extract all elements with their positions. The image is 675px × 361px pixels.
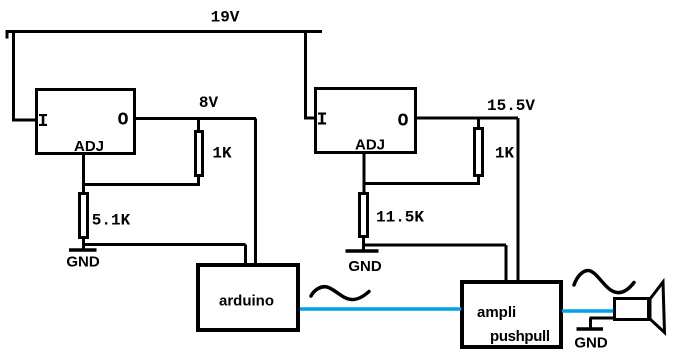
amplifier box	[462, 282, 561, 347]
wire 19V supply rail	[6, 30, 322, 33]
svg-text:GND: GND	[66, 254, 100, 271]
wire U2 output 15.5V to ampli	[416, 118, 518, 281]
svg-text:I: I	[317, 111, 328, 131]
resistor R4 11.5K body	[360, 194, 368, 237]
ground GND1 bar	[69, 248, 97, 252]
ground GND3 bar	[577, 327, 604, 331]
svg-text:ADJ: ADJ	[74, 138, 104, 155]
wire speaker to ground	[590, 318, 615, 328]
svg-text:1K: 1K	[212, 145, 232, 163]
svg-text:GND: GND	[574, 335, 608, 352]
svg-text:5.1K: 5.1K	[92, 212, 131, 230]
resistor R4 11.5K bottom lead	[362, 237, 365, 252]
svg-text:pushpull: pushpull	[490, 328, 550, 345]
blue audio wire ampli to speaker	[562, 309, 614, 313]
audio signal squiggle left	[311, 287, 369, 300]
resistor R1 1K body	[196, 132, 203, 176]
svg-text:I: I	[38, 112, 49, 132]
arduino box	[198, 265, 298, 330]
resistor R3 1K body	[475, 129, 483, 176]
svg-text:ADJ: ADJ	[355, 137, 385, 154]
wire GND1 node to arduino top	[82, 245, 246, 265]
speaker LS1 cone	[650, 282, 665, 333]
resistor R3 1K top lead	[477, 118, 480, 128]
resistor R1 1K top lead	[197, 119, 200, 132]
wire rail left end tick	[6, 30, 9, 39]
wire R3 bottom to U2 ADJ	[363, 182, 481, 185]
blue audio wire arduino to ampli	[300, 307, 461, 311]
wire rail to U1 input pin	[12, 30, 36, 120]
wire rail to U2 input pin	[304, 30, 315, 118]
wire U2 ADJ pin down	[363, 152, 366, 193]
wire U1 output 8V to arduino	[135, 119, 256, 265]
voltage regulator U2	[316, 89, 416, 153]
svg-text:ampli: ampli	[477, 304, 516, 321]
speaker LS1 body	[615, 299, 649, 320]
wire R1 bottom to U1 ADJ	[82, 183, 200, 186]
svg-text:1K: 1K	[495, 145, 515, 163]
voltage regulator U1	[37, 90, 135, 154]
resistor R2 5.1K body	[80, 194, 88, 238]
resistor R2 5.1K bottom lead	[82, 238, 85, 251]
svg-text:arduino: arduino	[219, 293, 274, 310]
resistor R3 1K bottom lead	[477, 176, 480, 186]
svg-text:15.5V: 15.5V	[487, 97, 535, 115]
svg-text:11.5K: 11.5K	[376, 209, 424, 227]
svg-text:O: O	[118, 111, 129, 131]
ground GND2 bar	[346, 249, 379, 253]
svg-text:19V: 19V	[211, 9, 240, 27]
svg-text:8V: 8V	[199, 94, 219, 112]
resistor R1 1K bottom lead	[197, 176, 200, 187]
audio signal squiggle right	[574, 271, 634, 293]
wire GND2 node to ampli top	[362, 245, 506, 281]
svg-text:GND: GND	[348, 258, 382, 275]
svg-text:O: O	[398, 112, 409, 132]
wire U1 ADJ pin down	[82, 154, 85, 193]
